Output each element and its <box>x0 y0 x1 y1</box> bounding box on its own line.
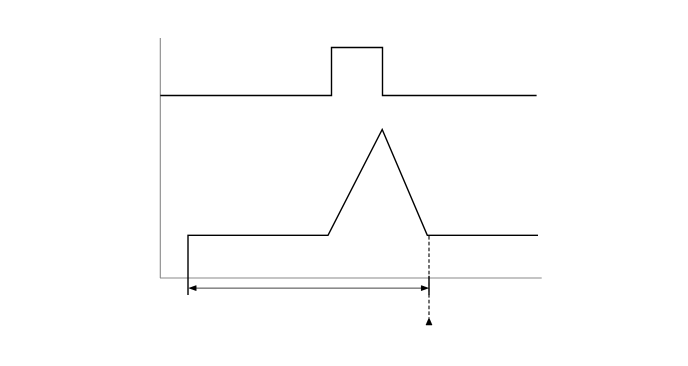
filled triangle marker at bottom of dashed line <box>426 318 432 325</box>
axis horizontal line <box>160 277 542 279</box>
left arrowhead <box>189 286 196 291</box>
measurement arrow line <box>192 287 425 289</box>
top waveform (pulse signal) <box>160 48 536 96</box>
bottom waveform (ramp signal) with start tick <box>188 130 538 296</box>
solid tick on dashed line <box>428 276 430 295</box>
dashed drop line <box>428 236 430 318</box>
axis vertical line <box>159 38 161 278</box>
right arrowhead <box>421 286 428 291</box>
